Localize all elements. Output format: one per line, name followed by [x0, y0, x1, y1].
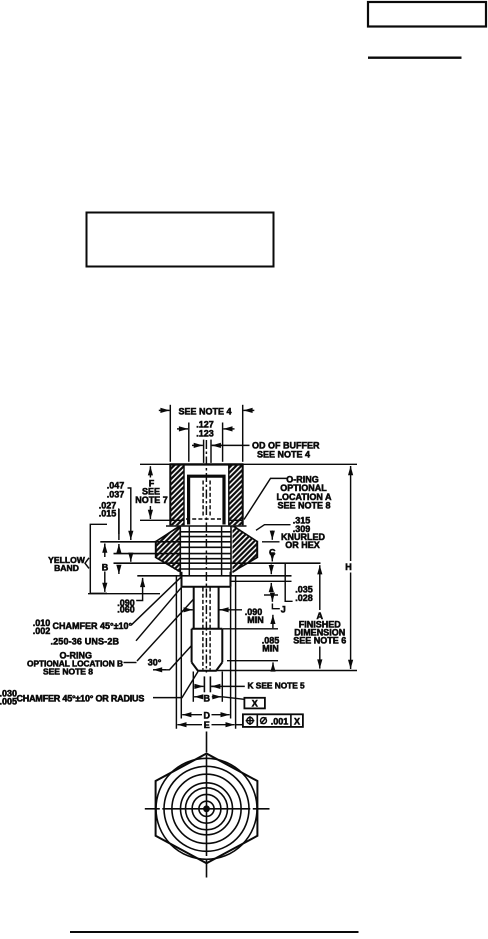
E extension lines — [175, 576, 177, 729]
leader .047/.037 — [128, 488, 131, 534]
empty label box left — [87, 213, 274, 267]
dim .127/.123 arrows — [177, 428, 188, 430]
hex hatch right — [233, 526, 257, 574]
barrel top edge — [140, 463, 357, 465]
barrel outer edges — [169, 464, 171, 525]
threaded shaft sides — [193, 587, 195, 629]
30 deg leader — [158, 646, 192, 670]
tip top extension right — [223, 628, 279, 630]
dim SEE NOTE 4 arrows — [159, 409, 170, 411]
svg-text:K SEE NOTE 5: K SEE NOTE 5 — [248, 681, 306, 691]
flange sides — [181, 572, 183, 587]
svg-text:.005: .005 — [0, 696, 17, 706]
crosshair horizontal — [145, 808, 160, 810]
left ref row low — [88, 593, 160, 595]
J elbow — [285, 564, 292, 601]
dim .090 MIN arrows — [185, 609, 193, 611]
dim E row arrows — [177, 724, 202, 726]
dim C — [271, 531, 273, 540]
svg-text:NOTE 7: NOTE 7 — [135, 495, 168, 505]
OD buffer leader line — [212, 444, 250, 446]
label FCF — [261, 718, 267, 724]
hex outline bottom view — [156, 754, 258, 864]
leader .250-36 thread — [136, 587, 182, 641]
dim H — [350, 466, 352, 561]
svg-text:.015: .015 — [99, 509, 117, 519]
leader o-ring A — [244, 478, 288, 519]
circle 2 — [164, 766, 249, 851]
svg-text:.001: .001 — [271, 716, 289, 726]
dim A — [319, 565, 321, 610]
hex flats — [155, 541, 157, 558]
K extension stubs — [203, 676, 205, 692]
svg-text:.250-36 UNS-2B: .250-36 UNS-2B — [51, 637, 120, 647]
leader .027/.015 — [118, 509, 120, 534]
svg-text:SEE NOTE 6: SEE NOTE 6 — [293, 635, 346, 645]
svg-text:MIN: MIN — [247, 615, 264, 625]
datum X box — [244, 698, 265, 709]
dim F arrows — [149, 466, 151, 477]
J upper arrow — [271, 596, 273, 602]
flange bottom — [182, 586, 231, 588]
rule under title box — [368, 57, 462, 59]
svg-text:SEE NOTE 4: SEE NOTE 4 — [178, 406, 231, 416]
svg-text:C: C — [269, 548, 276, 558]
dim OD buffer arrows — [192, 444, 203, 446]
svg-text:B: B — [102, 562, 109, 572]
barrel inner wall edges — [183, 464, 185, 525]
yellow band bracket — [90, 524, 107, 593]
band edge row 1 — [100, 541, 231, 543]
tip section — [191, 629, 193, 663]
buffer bore hidden lines (shaft+tip) — [202, 588, 204, 670]
svg-text:B: B — [204, 693, 211, 703]
svg-text:.002: .002 — [33, 626, 51, 636]
circle 5 — [186, 788, 228, 830]
svg-text:CHAMFER 45°±10°: CHAMFER 45°±10° — [53, 621, 133, 631]
tip chamfers — [192, 662, 198, 671]
hex bottom chamfers — [156, 558, 181, 572]
row near thread end right — [264, 594, 278, 596]
circle 7 — [199, 801, 214, 816]
band edge row 3 (hex bottom face) — [114, 562, 321, 564]
svg-text:.123: .123 — [196, 428, 214, 438]
svg-text:OR HEX: OR HEX — [285, 540, 320, 550]
circle 3 — [172, 774, 241, 843]
svg-text:BAND: BAND — [54, 563, 79, 573]
center dot — [203, 805, 210, 812]
band edge row 2 — [114, 553, 232, 555]
dim B left — [104, 544, 106, 550]
svg-text:CHAMFER 45°±10° OR RADIUS: CHAMFER 45°±10° OR RADIUS — [17, 693, 145, 703]
dim K arrows — [194, 685, 203, 687]
barrel wall bottom closers — [170, 519, 184, 521]
sleeve bottom hidden line — [186, 518, 225, 520]
J lower arrow — [272, 615, 274, 622]
knurl band rows — [180, 531, 231, 533]
svg-text:SEE NOTE 8: SEE NOTE 8 — [43, 667, 93, 677]
svg-text:J: J — [281, 605, 286, 615]
F lower ref line — [140, 519, 171, 521]
leader chamfer or radius — [153, 672, 198, 698]
leader o-ring B — [124, 662, 137, 664]
axis between views — [206, 732, 208, 753]
dim B row arrows — [194, 696, 202, 698]
hex top chamfers — [156, 527, 179, 542]
leader .315/.309 — [256, 525, 291, 531]
inner sleeve — [189, 476, 224, 524]
dim SEE NOTE 4 ext lines — [169, 405, 171, 462]
svg-text:MIN: MIN — [262, 644, 279, 654]
bottom rule — [70, 931, 359, 933]
barrel left wall hatch — [170, 464, 184, 525]
dim OD buffer ext lines — [203, 440, 205, 463]
row at tip lower right — [227, 660, 278, 662]
leader .090/.060 — [136, 580, 142, 601]
svg-text:X: X — [294, 716, 300, 726]
barrel right wall hatch — [229, 464, 243, 525]
leader .010/.002 chamfer — [131, 577, 181, 625]
dim .127/.123 ext lines — [188, 423, 190, 462]
yellow band brace tip — [85, 558, 89, 569]
hex nut top face — [166, 525, 247, 527]
circle 6 — [192, 794, 221, 823]
svg-text:H: H — [345, 562, 352, 572]
hex bore verticals — [179, 526, 181, 576]
position symbol — [247, 717, 253, 723]
centerline axis (upper) — [205, 440, 207, 673]
tip bottom edge — [198, 670, 217, 672]
tip bottom extension right — [217, 670, 358, 672]
J label tick — [272, 604, 279, 609]
circle 1 — [156, 758, 257, 859]
small arrows right x271 — [270, 565, 272, 575]
band edge row 4 (flange top) — [137, 575, 291, 577]
D extension lines — [180, 587, 182, 719]
title box top right — [368, 2, 486, 27]
feature control frame — [243, 714, 303, 727]
svg-text:.028: .028 — [295, 593, 313, 603]
buffer bore hidden lines (sleeve) — [202, 481, 204, 518]
hex hatch left — [156, 526, 180, 574]
svg-text:D: D — [204, 710, 211, 720]
crosshair vertical — [206, 755, 208, 856]
circle 4 thick — [181, 783, 233, 835]
svg-text:X: X — [252, 698, 258, 708]
flange groove row — [231, 580, 292, 582]
svg-text:.037: .037 — [107, 490, 125, 500]
dim B row ext lines — [192, 672, 194, 702]
svg-text:SEE NOTE 8: SEE NOTE 8 — [277, 500, 330, 510]
dim D row arrows — [182, 714, 202, 716]
svg-text:SEE NOTE 4: SEE NOTE 4 — [257, 450, 310, 460]
svg-text:30°: 30° — [148, 658, 162, 668]
svg-text:E: E — [204, 720, 210, 730]
svg-text:.060: .060 — [117, 605, 135, 615]
